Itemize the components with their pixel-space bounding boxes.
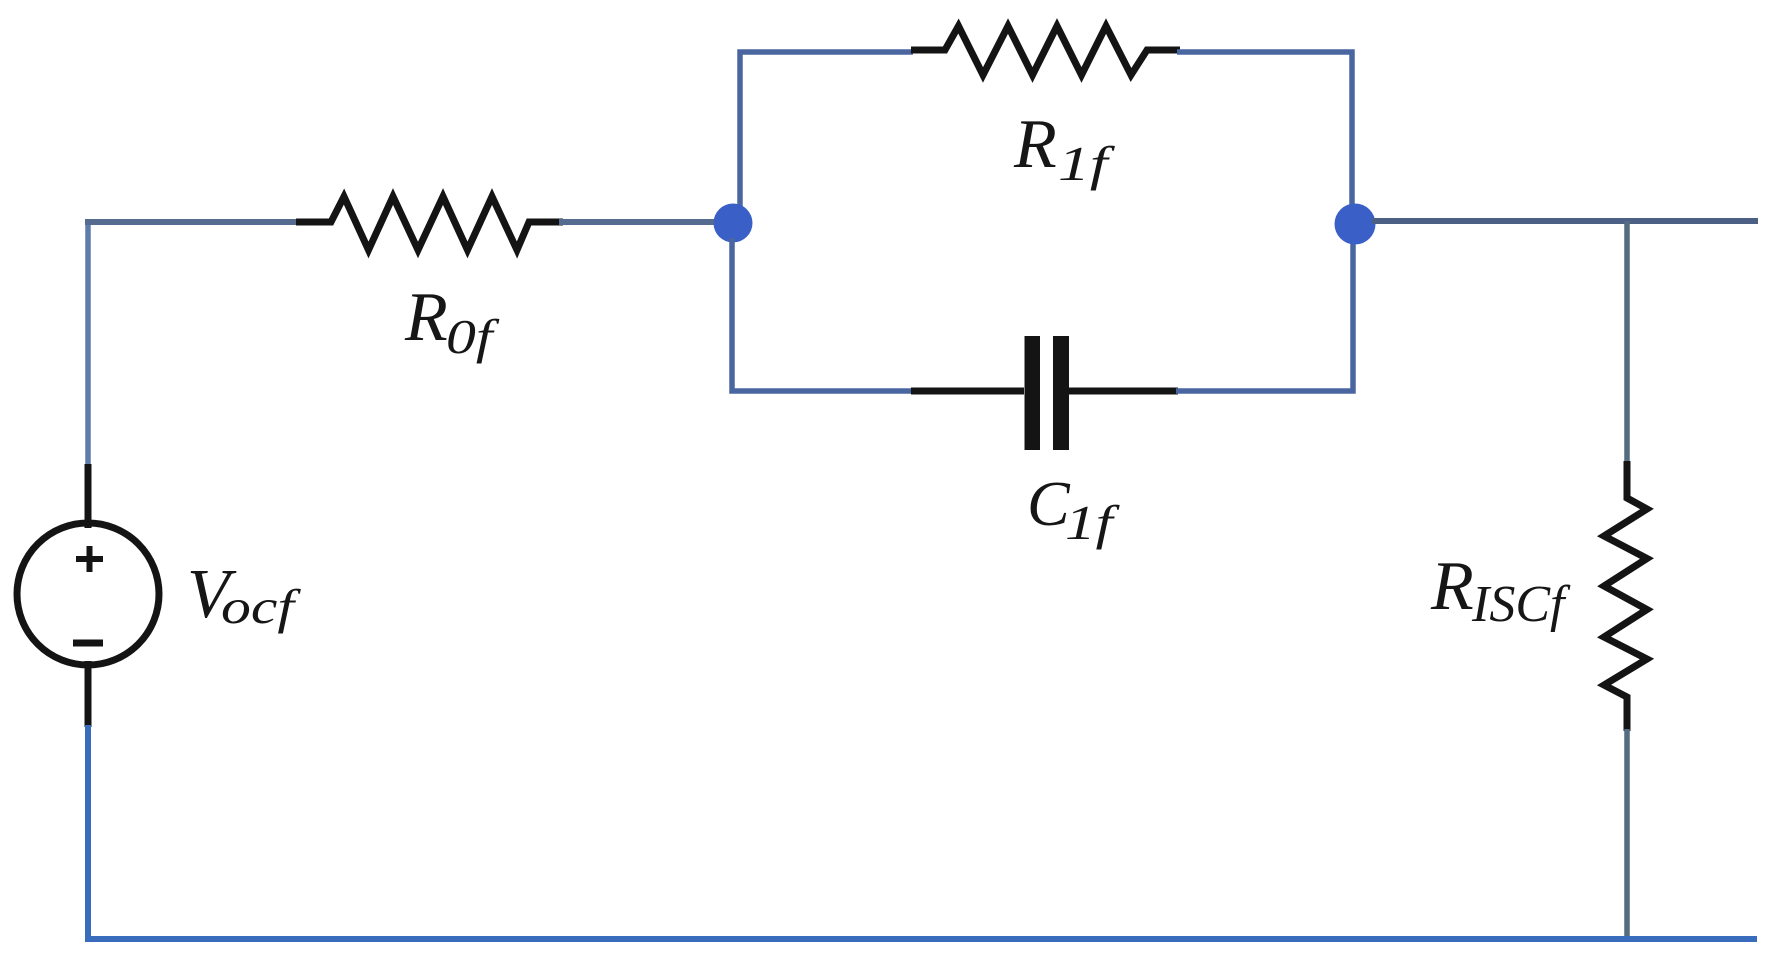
wire [732,238,913,391]
capacitor C1f [911,336,1178,450]
wire [1624,729,1630,939]
svg-text:R: R [1430,548,1474,625]
wire [559,219,733,225]
svg-text:1f: 1f [1058,137,1116,191]
node A [714,204,753,243]
wire [740,52,913,212]
label Vocf [187,556,301,634]
resistor R0f [296,197,563,251]
wire [1624,221,1630,463]
svg-text:0f: 0f [446,309,500,364]
label R0f [404,279,500,364]
svg-text:R: R [404,279,448,356]
wire [85,220,91,464]
voltage source Vocf [17,464,159,727]
wire [88,725,1757,939]
wire [1177,52,1352,206]
wire [85,219,299,225]
svg-text:ISCf: ISCf [1471,576,1571,633]
label RISCf [1430,548,1571,633]
svg-text:1f: 1f [1065,496,1120,550]
resistor R1f [911,26,1180,75]
node B [1335,204,1376,245]
wire [1372,218,1758,224]
svg-text:ocf: ocf [221,579,301,634]
label C1f [1027,468,1120,550]
svg-text:R: R [1013,106,1057,183]
label R1f [1013,106,1116,191]
resistor RISCf [1604,461,1647,731]
wire [1176,240,1353,391]
